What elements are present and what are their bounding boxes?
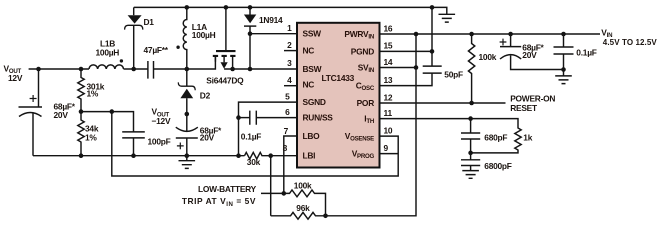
svg-text:POWER-ON: POWER-ON bbox=[510, 93, 555, 103]
svg-text:1k: 1k bbox=[523, 132, 532, 142]
junction FET drain on main rail bbox=[230, 67, 235, 72]
svg-text:11: 11 bbox=[384, 108, 393, 118]
junction SGND vertical on negative rail bbox=[236, 153, 241, 158]
svg-text:RUN/SS: RUN/SS bbox=[303, 113, 334, 123]
ground G3 below 6800pF bbox=[462, 171, 479, 179]
junction FET source on ground rail bbox=[224, 5, 229, 10]
junction 1N914 branch on main rail bbox=[248, 67, 253, 72]
wire main rail left segment (VOUT to L1B) bbox=[29, 68, 89, 70]
junction L1A / D2 on main rail bbox=[185, 67, 190, 72]
junction 30k / LBI bbox=[268, 153, 273, 158]
junction output cap / ground on negative rail bbox=[185, 153, 190, 158]
junction 301k on main rail bbox=[79, 67, 84, 72]
capacitor 50pF bbox=[380, 66, 442, 86]
diode D2 schottky bbox=[178, 69, 195, 131]
svg-text:LTC1433: LTC1433 bbox=[322, 73, 355, 83]
wire label leader low-battery bbox=[261, 192, 284, 194]
junction 1N914 top on ground rail bbox=[248, 5, 253, 10]
svg-text:680pF: 680pF bbox=[484, 132, 507, 142]
wire node A horizontal (301k/34k junction to 100pF) bbox=[81, 112, 134, 132]
svg-text:NC: NC bbox=[303, 46, 315, 56]
junction SGND / 0.1uF bbox=[236, 115, 241, 120]
svg-text:14: 14 bbox=[384, 57, 393, 67]
junction D1 on main rail bbox=[131, 67, 136, 72]
svg-text:4: 4 bbox=[287, 75, 292, 85]
wire SVIN pin14 bbox=[380, 67, 417, 69]
wire rail from 47uF to FET gate bbox=[154, 56, 216, 69]
svg-text:BSW: BSW bbox=[303, 64, 322, 74]
junction 301k/34k node A bbox=[79, 109, 84, 114]
svg-text:D1: D1 bbox=[144, 17, 155, 27]
wire ITH pin11 and resistor 1k bbox=[380, 119, 522, 153]
capacitor 680pF bbox=[461, 119, 480, 153]
svg-text:20V: 20V bbox=[522, 50, 537, 60]
ground G4 below 0.1uF bbox=[555, 70, 572, 84]
svg-text:LBO: LBO bbox=[303, 131, 321, 141]
svg-text:47µF**: 47µF** bbox=[144, 45, 169, 55]
svg-text:15: 15 bbox=[384, 41, 393, 51]
svg-text:0.1µF: 0.1µF bbox=[241, 132, 261, 142]
svg-text:9: 9 bbox=[384, 143, 389, 153]
svg-text:6: 6 bbox=[285, 107, 290, 117]
svg-text:7: 7 bbox=[284, 126, 289, 136]
diode D1 schottky bbox=[125, 7, 143, 69]
junction SSW / 1N914 cathode bbox=[248, 31, 253, 36]
junction 100pF bottom on negative rail bbox=[131, 153, 136, 158]
capacitor 68uF* at VIN bbox=[500, 34, 564, 70]
svg-text:TRIP AT VIN = 5V: TRIP AT VIN = 5V bbox=[182, 196, 256, 208]
junction 100k/96k row bbox=[323, 214, 328, 219]
svg-text:12V: 12V bbox=[8, 73, 23, 83]
junction PGND row / 50pF vertical bbox=[430, 49, 435, 54]
junction caps bottom / ground G4 bbox=[561, 67, 566, 72]
wire rail from L1B to 47uF bbox=[124, 68, 148, 70]
inductor L1A 100uH bbox=[176, 7, 186, 69]
svg-text:100pF: 100pF bbox=[148, 137, 171, 147]
svg-text:1%: 1% bbox=[87, 89, 99, 99]
svg-text:100µH: 100µH bbox=[192, 30, 216, 40]
transistor Q1 Si6447DQ P-MOSFET bbox=[213, 7, 236, 69]
svg-text:5: 5 bbox=[285, 91, 290, 101]
junction 68uF top on VIN rail bbox=[508, 32, 513, 37]
ground G2 below output cap bbox=[179, 156, 196, 169]
wire LBI node down to 96k row bbox=[270, 156, 272, 216]
wire VIN rail pin16 bbox=[380, 33, 601, 35]
svg-text:96k: 96k bbox=[296, 203, 310, 213]
svg-text:100k: 100k bbox=[479, 52, 497, 62]
junction 0.1uF top on VIN rail bbox=[561, 32, 566, 37]
svg-text:1N914: 1N914 bbox=[259, 15, 283, 25]
svg-text:0.1µF: 0.1µF bbox=[576, 47, 596, 57]
junction VOUT -12V tap bbox=[185, 112, 190, 117]
junction 100k bottom on POR row bbox=[469, 101, 474, 106]
svg-text:PGND: PGND bbox=[351, 46, 374, 56]
junction input cap on main rail bbox=[36, 67, 41, 72]
svg-text:13: 13 bbox=[384, 75, 393, 85]
junction 34k bottom on negative rail bbox=[79, 153, 84, 158]
svg-text:20V: 20V bbox=[200, 132, 215, 142]
wire rail from FET to pin 3 BSW bbox=[224, 68, 297, 70]
svg-text:12: 12 bbox=[384, 92, 393, 102]
svg-text:LOW-BATTERY: LOW-BATTERY bbox=[198, 184, 257, 194]
wire POR pin12 to POWER-ON RESET bbox=[380, 102, 506, 104]
svg-text:POR: POR bbox=[357, 98, 375, 108]
junction PGND vertical on ground rail bbox=[430, 5, 435, 10]
wire LBO pin7 down to 100k row bbox=[284, 136, 297, 193]
wire SGND pin5 to vertical bbox=[239, 102, 298, 156]
junction VIN rail / 96k vertical bbox=[414, 32, 419, 37]
capacitor 6800pF bbox=[461, 153, 480, 171]
capacitor 0.1uF RUN/SS bbox=[239, 111, 298, 125]
svg-text:8: 8 bbox=[283, 143, 288, 153]
wire PGND pin15 to ground rail vertical bbox=[380, 7, 433, 66]
junction 100k top on VIN rail bbox=[469, 32, 474, 37]
resistor 34k bbox=[78, 112, 84, 156]
svg-text:100k: 100k bbox=[294, 181, 312, 191]
wire VPROG pin9 stub bbox=[380, 153, 399, 155]
junction 680pF/1k/6800pF bbox=[468, 151, 473, 156]
svg-text:1%: 1% bbox=[85, 132, 97, 142]
junction L1A top on ground rail bbox=[185, 5, 190, 10]
inductor L1B 100uH bbox=[89, 59, 124, 69]
svg-text:D2: D2 bbox=[200, 90, 211, 100]
svg-text:20V: 20V bbox=[54, 110, 69, 120]
resistor 100k POR pull-up bbox=[468, 34, 474, 103]
capacitor 0.1uF at VIN bbox=[554, 34, 574, 70]
junction feedback tap node A bbox=[110, 109, 115, 114]
capacitor 47uF** coupling bbox=[148, 61, 154, 79]
wire NC pin2 stub bbox=[284, 50, 297, 52]
svg-text:SGND: SGND bbox=[303, 97, 326, 107]
junction ITH / 680pF bbox=[468, 116, 473, 121]
svg-text:50pF: 50pF bbox=[444, 69, 463, 79]
resistor 301k bbox=[78, 69, 84, 112]
svg-text:6800pF: 6800pF bbox=[484, 161, 511, 171]
svg-text:NC: NC bbox=[303, 80, 315, 90]
svg-text:2: 2 bbox=[287, 40, 292, 50]
junction LBO / 100k leader bbox=[282, 191, 287, 196]
resistor 100k low-battery bbox=[284, 190, 326, 216]
svg-text:4.5V TO 12.5V: 4.5V TO 12.5V bbox=[603, 38, 658, 47]
svg-text:RESET: RESET bbox=[510, 103, 538, 113]
svg-text:3: 3 bbox=[287, 58, 292, 68]
svg-text:16: 16 bbox=[384, 23, 393, 33]
svg-text:1: 1 bbox=[287, 23, 292, 33]
junction SVIN on 96k vertical bbox=[414, 65, 419, 70]
capacitor 68uF* output (-12V) bbox=[176, 127, 198, 156]
wire VOSENSE feedback loop bbox=[112, 112, 398, 176]
svg-text:Si6447DQ: Si6447DQ bbox=[206, 76, 244, 86]
capacitor 68uF* input (VOUT 12V) bbox=[19, 69, 43, 156]
resistor 96k bbox=[271, 34, 416, 219]
svg-text:SSW: SSW bbox=[303, 29, 322, 39]
svg-text:30k: 30k bbox=[247, 157, 261, 167]
ground G1 top right bbox=[439, 14, 456, 22]
diode 1N914 bbox=[244, 7, 256, 69]
svg-text:100µH: 100µH bbox=[96, 47, 120, 57]
wire bottom negative rail y=155.7 bbox=[33, 155, 245, 157]
svg-text:10: 10 bbox=[384, 125, 393, 135]
wire top ground rail bbox=[134, 7, 447, 14]
svg-text:−12V: −12V bbox=[152, 116, 171, 126]
capacitor 100pF bbox=[122, 132, 145, 156]
svg-text:VIN: VIN bbox=[601, 27, 612, 39]
svg-text:LBI: LBI bbox=[303, 151, 316, 161]
resistor 30k bbox=[245, 152, 298, 159]
wire SSW pin1 bbox=[250, 33, 297, 35]
op-amp U1 LTC1433 body bbox=[297, 23, 380, 168]
wire NC pin4 stub bbox=[284, 85, 297, 87]
